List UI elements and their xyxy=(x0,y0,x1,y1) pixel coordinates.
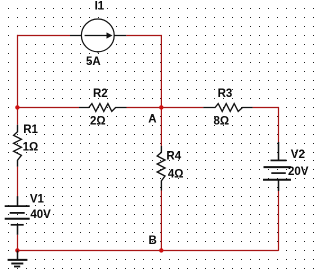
I1 right pin lead xyxy=(114,35,126,37)
wire R2 to node A xyxy=(127,107,162,109)
svg-text:1Ω: 1Ω xyxy=(23,141,39,153)
wire from I1 lead to top-right corner and down to node A xyxy=(126,36,161,108)
svg-text:B: B xyxy=(149,235,157,247)
wire left junction to R2 xyxy=(17,107,79,109)
resistor R4 xyxy=(157,146,165,191)
svg-text:A: A xyxy=(148,113,156,125)
wire V2 down to bottom-right corner xyxy=(278,191,280,251)
wire left vertical from corner to R1 xyxy=(17,35,19,125)
svg-text:2Ω: 2Ω xyxy=(90,116,106,128)
svg-text:8Ω: 8Ω xyxy=(214,116,230,128)
battery V2 xyxy=(263,142,291,191)
wire R3 to right corner and down to V2 xyxy=(253,108,279,143)
svg-text:4Ω: 4Ω xyxy=(168,168,184,180)
wire V1 to bottom junction xyxy=(17,235,19,251)
resistor R1 xyxy=(14,125,22,167)
svg-text:R3: R3 xyxy=(218,88,233,100)
svg-text:R4: R4 xyxy=(166,150,181,162)
wire bottom from junction to bottom-right corner xyxy=(17,250,279,252)
svg-text:20V: 20V xyxy=(288,166,309,178)
wire top from left corner to I1 xyxy=(17,35,70,37)
svg-text:5A: 5A xyxy=(86,56,101,68)
ground xyxy=(8,251,28,267)
junction dot left at R2/R1 xyxy=(15,105,19,109)
I1 left pin lead xyxy=(70,35,82,37)
svg-text:40V: 40V xyxy=(30,209,51,221)
svg-text:V1: V1 xyxy=(30,194,45,206)
battery V1 xyxy=(5,196,30,235)
wire R4 to node B xyxy=(160,191,162,251)
junction node B dot xyxy=(159,248,163,252)
junction dot bottom-left at ground xyxy=(15,248,19,252)
svg-text:R2: R2 xyxy=(93,88,108,100)
svg-text:V2: V2 xyxy=(291,149,305,161)
junction node A dot xyxy=(159,105,163,109)
wire node A to R3 xyxy=(161,107,203,109)
resistor R3 xyxy=(203,104,252,112)
wire node A to R4 xyxy=(160,108,162,146)
current source I1 circle xyxy=(81,19,114,53)
resistor R2 xyxy=(79,104,127,112)
svg-text:I1: I1 xyxy=(95,1,105,13)
svg-text:R1: R1 xyxy=(23,124,38,136)
wire R1 to V1 xyxy=(17,167,19,197)
